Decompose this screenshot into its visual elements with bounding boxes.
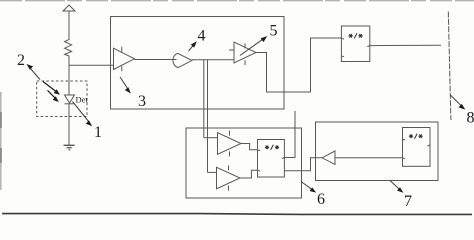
- svg-text:3: 3: [138, 93, 146, 110]
- svg-text:5: 5: [270, 23, 278, 40]
- svg-text:6: 6: [317, 191, 325, 208]
- svg-text:4: 4: [198, 28, 206, 45]
- svg-text:2: 2: [17, 52, 25, 69]
- svg-text:7: 7: [404, 193, 412, 210]
- svg-text:8: 8: [467, 110, 474, 127]
- svg-text:1: 1: [94, 124, 102, 141]
- svg-text:Det: Det: [76, 95, 89, 105]
